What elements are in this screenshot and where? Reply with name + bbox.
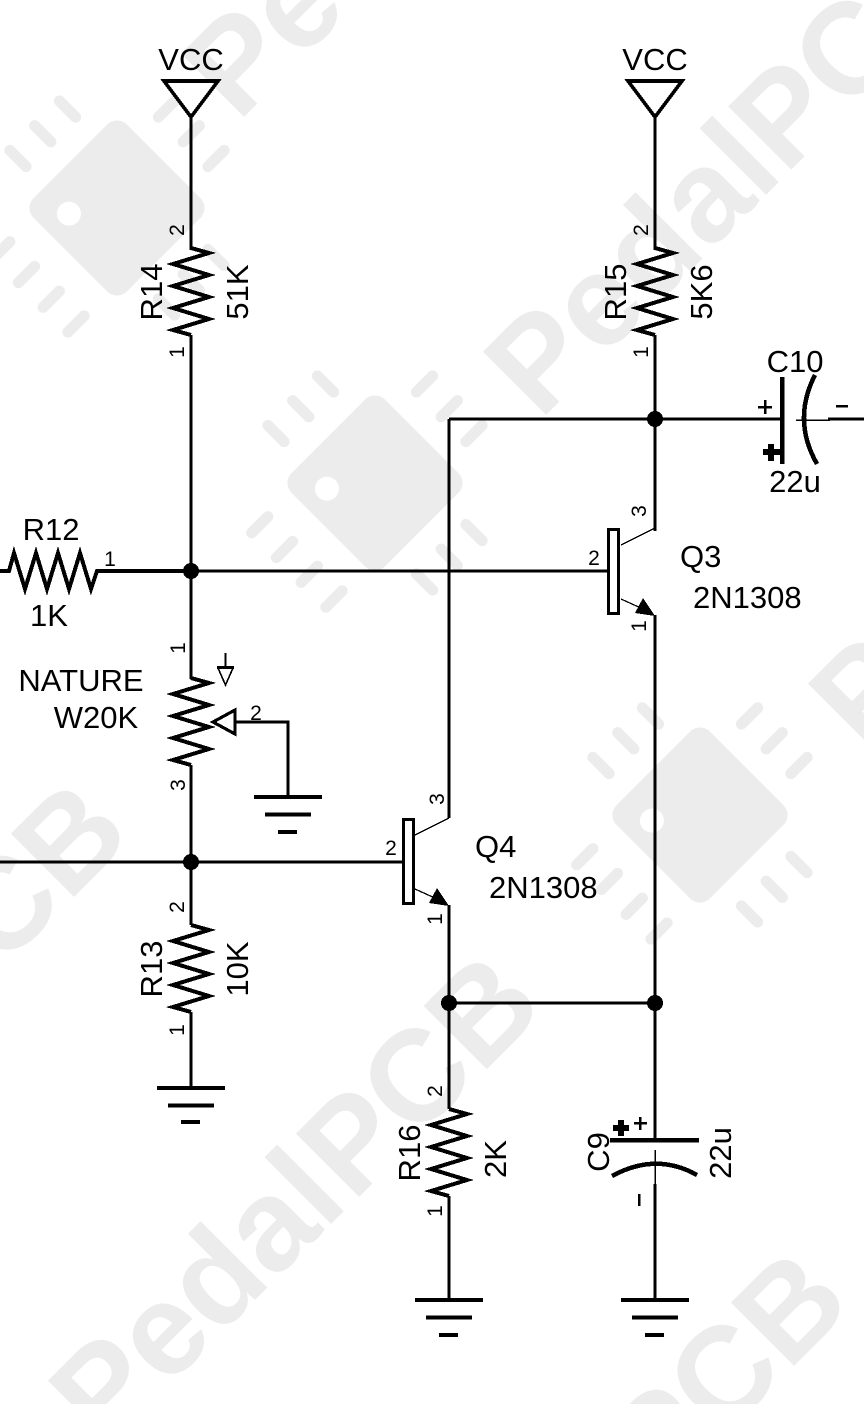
wire node C down to Q4 collector xyxy=(448,419,451,818)
wire node A to potentiometer xyxy=(190,571,193,679)
ground C9 xyxy=(621,1300,689,1335)
node D junction xyxy=(441,995,457,1011)
svg-text:51K: 51K xyxy=(220,264,255,319)
svg-text:2: 2 xyxy=(166,224,189,236)
wire node D to node E xyxy=(449,1002,655,1005)
ground R13 xyxy=(157,1088,225,1122)
svg-text:1: 1 xyxy=(166,1024,189,1036)
svg-text:C10: C10 xyxy=(767,344,824,379)
svg-text:NATURE: NATURE xyxy=(18,663,143,698)
svg-text:2N1308: 2N1308 xyxy=(489,870,598,905)
svg-text:22u: 22u xyxy=(703,1127,738,1179)
wire R13 to ground xyxy=(190,1012,193,1088)
svg-text:VCC: VCC xyxy=(622,42,687,77)
svg-text:3: 3 xyxy=(628,505,651,517)
wire input to Q4 base xyxy=(0,861,403,864)
svg-text:2: 2 xyxy=(630,224,653,236)
node B junction xyxy=(183,854,199,870)
wire wiper to ground xyxy=(235,722,288,797)
node C junction xyxy=(647,411,663,427)
power symbol VCC right xyxy=(622,42,687,117)
svg-text:3: 3 xyxy=(426,793,449,805)
wire C9 to ground xyxy=(654,1184,657,1300)
svg-text:R14: R14 xyxy=(134,264,169,321)
svg-text:1K: 1K xyxy=(30,598,68,633)
svg-text:Q4: Q4 xyxy=(475,829,516,864)
svg-text:2: 2 xyxy=(166,901,189,913)
svg-text:5K6: 5K6 xyxy=(684,264,719,319)
transistor Q3 2N1308 xyxy=(588,505,801,632)
wire node D to R16 xyxy=(448,1003,451,1109)
svg-text:2: 2 xyxy=(588,547,600,570)
power symbol VCC left xyxy=(158,42,223,117)
wire R14 to node A xyxy=(190,335,193,571)
wire VCC to R14 xyxy=(190,116,193,250)
wire Q4 emitter to node D xyxy=(448,905,451,1003)
ground wiper xyxy=(254,797,322,832)
svg-text:2K: 2K xyxy=(478,1140,513,1178)
ground R16 xyxy=(415,1300,483,1335)
svg-text:2N1308: 2N1308 xyxy=(693,580,802,615)
wire R15 to node C xyxy=(654,335,657,419)
wire node C horizontal xyxy=(449,418,780,421)
svg-text:VCC: VCC xyxy=(158,42,223,77)
svg-text:R16: R16 xyxy=(392,1125,427,1182)
resistor R12 1K xyxy=(0,512,191,633)
wire node A to Q3 base xyxy=(191,570,607,573)
svg-text:W20K: W20K xyxy=(54,700,139,735)
svg-text:2: 2 xyxy=(424,1085,447,1097)
svg-text:Q3: Q3 xyxy=(680,539,721,574)
svg-text:1: 1 xyxy=(166,346,189,358)
svg-text:1: 1 xyxy=(424,1205,447,1217)
wire Q3 collector to node C xyxy=(654,419,657,531)
svg-text:3: 3 xyxy=(167,779,190,791)
svg-text:1: 1 xyxy=(630,346,653,358)
resistor R13 10K xyxy=(134,901,255,1036)
svg-text:10K: 10K xyxy=(220,941,255,996)
transistor Q4 2N1308 xyxy=(385,793,597,925)
wire Q3 emitter to node E xyxy=(654,615,657,1003)
wire pot to node B xyxy=(190,765,193,862)
svg-text:2: 2 xyxy=(385,837,397,860)
wire node E to C9 xyxy=(654,1003,657,1140)
wire R16 to ground xyxy=(448,1196,451,1300)
svg-text:22u: 22u xyxy=(769,464,821,499)
svg-text:1: 1 xyxy=(104,548,116,571)
node A junction xyxy=(183,563,199,579)
svg-text:R15: R15 xyxy=(598,264,633,321)
svg-text:R12: R12 xyxy=(23,512,80,547)
svg-text:1: 1 xyxy=(628,620,651,632)
wire node B to R13 xyxy=(190,862,193,925)
node E junction xyxy=(647,995,663,1011)
resistor R15 5K6 xyxy=(598,224,719,358)
svg-text:C9: C9 xyxy=(581,1132,616,1172)
svg-text:1: 1 xyxy=(424,913,447,925)
capacitor C10 22u xyxy=(758,344,864,499)
svg-text:R13: R13 xyxy=(134,941,169,998)
capacitor C9 22u xyxy=(581,1117,738,1206)
wire VCC to R15 xyxy=(654,116,657,250)
potentiometer NATURE W20K xyxy=(18,642,261,791)
svg-text:1: 1 xyxy=(167,642,190,654)
resistor R14 51K xyxy=(134,224,255,358)
resistor R16 2K xyxy=(392,1085,513,1217)
